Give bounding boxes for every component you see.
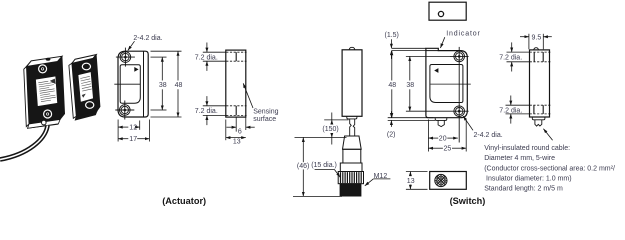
actuator side view: body [226, 50, 246, 117]
dimension 7.2 dia. actuator top [195, 43, 226, 71]
switch side view: connector block 2 [340, 163, 362, 172]
dimension 12 actuator [118, 120, 140, 142]
svg-text:surface: surface [253, 116, 276, 123]
svg-text:Standard length: 2 m/5 m: Standard length: 2 m/5 m [484, 186, 563, 193]
svg-text:Diameter 4 mm, 5-wire: Diameter 4 mm, 5-wire [484, 155, 555, 162]
svg-text:48: 48 [175, 82, 183, 89]
label M12 [365, 173, 391, 186]
svg-text:38: 38 [406, 82, 414, 89]
svg-text:(15 dia.): (15 dia.) [311, 162, 337, 169]
switch front view: hole bottom [450, 102, 469, 143]
dimension (46) [293, 137, 342, 196]
product photo: actuator block left face [69, 63, 76, 118]
svg-text:12: 12 [129, 125, 137, 132]
svg-text:Sensing: Sensing [253, 109, 278, 116]
dimension 7.2 dia. actuator bottom [195, 96, 228, 125]
svg-text:Insulator diameter: 1.0 mm): Insulator diameter: 1.0 mm) [486, 176, 572, 183]
switch front view: cable stub [435, 118, 447, 127]
label 2-4.2 dia. switch [463, 116, 503, 139]
product photo: switch block top face [27, 56, 63, 66]
svg-text:9.5: 9.5 [532, 35, 542, 42]
svg-text:7.2 dia.: 7.2 dia. [195, 108, 218, 115]
dimension (150) [295, 113, 349, 145]
dimension 13 actuator [226, 120, 246, 146]
svg-text:7.2 dia.: 7.2 dia. [499, 55, 522, 62]
product photo: actuator screw top [82, 63, 90, 70]
switch front view: hole top [450, 47, 469, 102]
product photo: actuator block top face [72, 55, 96, 64]
switch front view: body [426, 48, 467, 117]
switch right side view: cable stub [532, 117, 545, 126]
dimension 7.2 dia. switch bottom [499, 96, 529, 124]
svg-text:(2): (2) [387, 131, 396, 138]
svg-text:Vinyl-insulated round cable:: Vinyl-insulated round cable: [484, 145, 570, 152]
dimension (2) [387, 111, 435, 138]
product photo: cable [0, 126, 48, 160]
text block vinyl cable [484, 145, 615, 193]
dimension 48 switch [388, 51, 434, 118]
svg-text:38: 38 [159, 82, 167, 89]
actuator front view: hole top [116, 48, 135, 67]
dimension 6 actuator [226, 117, 254, 135]
dimension 38 actuator [151, 57, 167, 110]
svg-text:(Actuator): (Actuator) [162, 196, 206, 206]
svg-text:20: 20 [439, 136, 447, 143]
label (15 dia.) [311, 162, 340, 177]
actuator front view: marker triangle [134, 67, 138, 72]
dimension 20 switch [428, 120, 457, 152]
switch side view: cable stub [347, 116, 357, 135]
svg-text:48: 48 [388, 82, 396, 89]
switch right side view: counterbore top [530, 52, 551, 62]
svg-text:(1.5): (1.5) [385, 32, 399, 39]
product photo: switch block left face [24, 67, 29, 127]
svg-text:17: 17 [129, 136, 137, 143]
switch front view: center line [430, 83, 471, 85]
dimension 13 switch bottom view [406, 172, 428, 190]
actuator side view: counterbore bottom [226, 106, 246, 116]
switch right side view: counterbore bottom [530, 105, 551, 114]
switch front view: recess [430, 65, 463, 103]
svg-text:(Switch): (Switch) [450, 196, 486, 206]
switch side view with connector: body [342, 47, 362, 116]
actuator front view: hole bottom [115, 101, 134, 120]
product photo: switch cable gland [42, 120, 47, 125]
dimension 7.2 dia. switch top [499, 42, 529, 71]
svg-text:7.2 dia.: 7.2 dia. [195, 54, 218, 61]
svg-text:13: 13 [407, 178, 415, 185]
svg-text:(Conductor cross-sectional are: (Conductor cross-sectional area: 0.2 mm²… [484, 165, 615, 172]
switch front view: indicator strip extension lines [392, 48, 426, 50]
svg-text:25: 25 [444, 146, 452, 153]
switch top view [429, 2, 466, 20]
label 2-4.2 dia. actuator [128, 35, 163, 50]
label sensing surface actuator [243, 83, 278, 123]
svg-text:Indicator: Indicator [446, 31, 481, 38]
switch bottom view [423, 162, 466, 196]
actuator side view: counterbore top [226, 52, 246, 61]
label indicator [440, 31, 480, 48]
dimension (1.5) [385, 32, 399, 59]
switch side view: connector base [340, 184, 361, 196]
switch side view: connector boot [343, 136, 362, 149]
dimension 9.5 [520, 34, 552, 50]
svg-text:2-4.2 dia.: 2-4.2 dia. [133, 35, 162, 42]
actuator front view: center line [114, 83, 140, 85]
product photo: switch block screw top [39, 65, 47, 73]
switch right side view: body [530, 48, 550, 117]
leader vinyl cable [543, 129, 552, 141]
switch side view: connector block 1 [343, 149, 361, 163]
actuator front view: body [118, 51, 148, 117]
svg-text:(150): (150) [322, 126, 338, 133]
product photo: switch block screw bottom [44, 110, 52, 118]
product photo: actuator screw bottom [86, 102, 94, 109]
dimension 48 actuator [151, 51, 183, 117]
svg-text:2-4.2 dia.: 2-4.2 dia. [474, 132, 503, 139]
dimension 38 switch [406, 56, 450, 111]
dimension 17 actuator [118, 120, 149, 144]
switch side view: knurled ring [338, 172, 363, 184]
product photo: actuator label [78, 72, 93, 103]
svg-text:7.2 dia.: 7.2 dia. [499, 108, 522, 115]
product photo: switch block body [27, 56, 65, 128]
actuator front view: recess [120, 65, 140, 104]
product photo: switch block bottom face [28, 120, 60, 129]
svg-text:6: 6 [238, 128, 242, 135]
dimension 25 switch [428, 120, 466, 153]
svg-text:13: 13 [233, 138, 241, 145]
product photo: switch block label [36, 76, 58, 107]
svg-text:(46): (46) [297, 163, 309, 170]
product photo: actuator block body [72, 55, 100, 120]
switch front view: marker triangle [434, 68, 438, 73]
